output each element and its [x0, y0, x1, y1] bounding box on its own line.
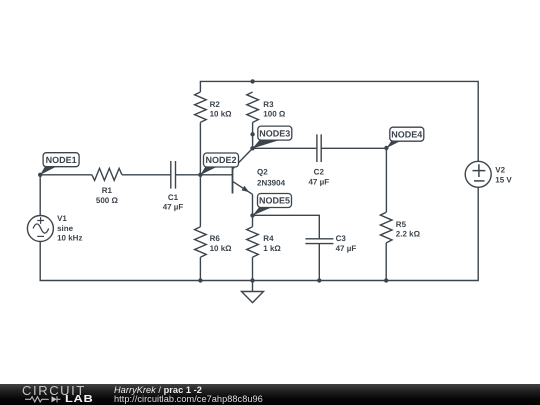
resistor R4 — [247, 227, 259, 257]
source V1 circle — [27, 216, 53, 242]
wire NODE5 row to C3 — [253, 215, 320, 239]
wire R1 to C1 — [122, 174, 171, 176]
junction dot C3 bottom — [317, 278, 321, 282]
transistor Q2 base bar — [232, 167, 234, 194]
node NODE5 label — [253, 194, 292, 216]
svg-text:15 V: 15 V — [495, 175, 512, 184]
svg-text:C3: C3 — [336, 234, 347, 243]
wire C3 bottom lead — [318, 244, 320, 281]
junction dot collector node3 — [250, 146, 254, 150]
svg-text:R2: R2 — [210, 100, 221, 109]
svg-text:10 kΩ: 10 kΩ — [210, 110, 233, 119]
wire R5 leads — [385, 148, 387, 280]
junction dot ground / R4 bottom — [250, 278, 254, 282]
svg-text:R6: R6 — [210, 234, 221, 243]
resistor R2 — [195, 92, 207, 122]
junction dot node5 — [250, 213, 254, 217]
wire V1 top lead — [39, 175, 41, 216]
resistor R5 — [380, 212, 392, 243]
transistor Q2 emitter diagonal — [233, 181, 253, 194]
source V1 plus sign — [37, 217, 44, 224]
wire R6 leads — [199, 175, 201, 281]
svg-text:sine: sine — [57, 224, 74, 233]
wire top rail — [200, 81, 478, 161]
wire input row: V1 to R1 — [40, 174, 92, 176]
svg-text:500 Ω: 500 Ω — [96, 196, 119, 205]
svg-text:47 µF: 47 µF — [308, 177, 329, 186]
footer logo squiggle — [25, 395, 65, 404]
wire R3 to collector node — [252, 122, 254, 148]
wire C2 to NODE4 — [321, 147, 386, 149]
svg-text:V1: V1 — [57, 214, 67, 223]
node NODE3 label — [253, 126, 292, 148]
svg-text:NODE2: NODE2 — [205, 155, 236, 165]
wire C1 to Q2 base — [176, 174, 233, 176]
source V1 minus sign — [37, 235, 44, 237]
capacitor C3 — [305, 239, 333, 244]
svg-text:10 kHz: 10 kHz — [57, 234, 82, 243]
svg-text:NODE1: NODE1 — [46, 155, 77, 165]
svg-text:2N3904: 2N3904 — [257, 178, 286, 187]
wire C2 row: collector node to C2 — [253, 147, 317, 149]
svg-text:NODE5: NODE5 — [259, 196, 290, 206]
ground triangle — [242, 292, 264, 303]
svg-text:NODE4: NODE4 — [391, 129, 422, 139]
source V2 plus sign — [473, 164, 486, 177]
svg-text:NODE3: NODE3 — [259, 128, 290, 138]
source V2 circle — [465, 161, 491, 187]
svg-text:V2: V2 — [495, 166, 505, 175]
wire bottom rail — [40, 187, 478, 280]
capacitor C1 — [171, 161, 176, 189]
resistor R1 — [92, 168, 122, 180]
svg-text:47 µF: 47 µF — [336, 244, 357, 253]
svg-text:1 kΩ: 1 kΩ — [263, 244, 281, 253]
svg-text:10 kΩ: 10 kΩ — [210, 244, 233, 253]
node NODE1 label — [40, 153, 79, 175]
junction dot node4 — [384, 146, 388, 150]
source V2 minus sign — [474, 180, 485, 182]
footer bar — [0, 384, 540, 405]
svg-text:R3: R3 — [263, 100, 274, 109]
node NODE4 label — [386, 127, 423, 148]
junction dot R5 bottom — [384, 278, 388, 282]
footer logo LAB — [65, 395, 94, 404]
footer logo CIRCUIT — [22, 385, 86, 396]
wire Q2 emitter lead — [252, 194, 254, 215]
wire R4 leads — [252, 215, 254, 280]
transistor Q2 emitter arrowhead — [242, 186, 250, 192]
junction dot R3 bottom — [250, 132, 254, 136]
junction dot top rail / R3 — [250, 79, 254, 83]
resistor R6 — [195, 227, 207, 257]
svg-text:C1: C1 — [168, 193, 179, 202]
source V1 sine wave — [33, 224, 49, 233]
svg-text:R5: R5 — [396, 220, 407, 229]
svg-text:R1: R1 — [102, 186, 113, 195]
capacitor C2 — [317, 134, 321, 162]
ground stem — [252, 281, 254, 292]
wire R2 bottom lead — [199, 122, 201, 174]
svg-text:Q2: Q2 — [257, 167, 268, 176]
transistor Q2 collector diagonal — [233, 148, 253, 169]
svg-text:C2: C2 — [314, 168, 325, 177]
svg-text:2.2 kΩ: 2.2 kΩ — [396, 230, 421, 239]
node NODE2 label — [200, 153, 238, 175]
svg-text:47 µF: 47 µF — [163, 203, 184, 212]
junction dot node1 — [38, 173, 42, 177]
footer attribution text — [114, 386, 263, 405]
resistor R3 — [247, 92, 259, 122]
junction dot node2 (R2/R6/base) — [198, 173, 202, 177]
svg-text:100 Ω: 100 Ω — [263, 110, 286, 119]
svg-text:R4: R4 — [263, 234, 274, 243]
junction dot R6 bottom — [198, 278, 202, 282]
